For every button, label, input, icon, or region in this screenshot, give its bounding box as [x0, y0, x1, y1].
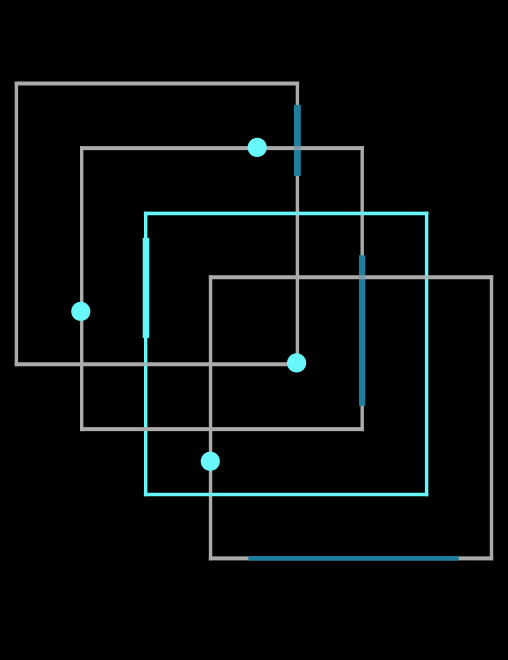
wire: loop L4 left edge — [209, 275, 212, 560]
junction tint: L3 top edge over L1 right wire — [296, 212, 299, 216]
bus segment S2 on loop L2 right edge — [359, 255, 365, 406]
junction tint: L4 top edge over L3 right wire — [425, 275, 428, 279]
junction tint: L2 top edge over segment S1 — [294, 146, 301, 150]
wire: loop L1 left edge — [15, 82, 18, 367]
junction tint: L4 top edge over segment S2 — [359, 275, 365, 279]
bus segment S4 on loop L4 bottom edge — [248, 556, 458, 561]
wire: loop L4 right edge — [490, 275, 493, 560]
node N2 on loop L2 left edge — [71, 302, 90, 321]
wire: loop L1 bottom edge — [15, 362, 299, 366]
highlighted segment S3 on loop L3 left edge — [143, 238, 150, 338]
wire: loop L1 top edge — [15, 82, 299, 86]
wire: loop L2 bottom edge — [80, 427, 364, 431]
junction tint: L3 bottom edge over L4 left wire — [209, 493, 212, 497]
node N1 on loop L2 top edge — [248, 138, 267, 157]
node N4 on loop L4 left edge — [201, 452, 220, 471]
wire: loop L2 right edge — [361, 146, 364, 431]
junction tint: L1 bottom edge over L3 left wire — [144, 362, 147, 366]
wire: loop L3 right edge (highlighted loop) — [425, 212, 428, 497]
wire: loop L2 top edge — [80, 146, 364, 150]
wire: loop L3 top edge (highlighted loop) — [144, 212, 429, 216]
wire: loop L3 bottom edge (highlighted loop) — [144, 493, 429, 497]
node N3 at loop L1 bottom-right corner — [287, 353, 306, 372]
wire: loop L4 top edge — [209, 275, 493, 279]
wire: loop L3 left edge (highlighted loop) — [144, 212, 147, 497]
junction tint: L3 top edge over L2 right wire — [361, 212, 364, 216]
wire: loop L2 left edge — [80, 146, 83, 431]
wire: loop L4 bottom edge — [209, 556, 493, 560]
wire: loop L1 right edge — [296, 82, 299, 367]
bus segment S1 on loop L1 right edge — [294, 105, 301, 176]
